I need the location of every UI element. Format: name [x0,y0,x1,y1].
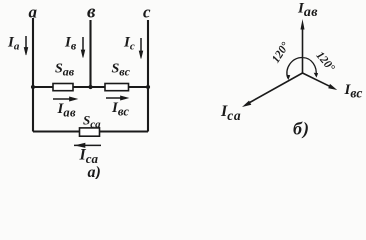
svg-text:a): a) [88,164,101,179]
svg-text:Saв: Saв [55,62,75,79]
svg-text:в: в [87,2,96,23]
svg-text:б): б) [293,119,310,140]
svg-text:Iвc: Iвc [344,82,363,101]
svg-text:c: c [143,3,151,22]
svg-text:Sвc: Sвc [112,62,131,79]
svg-text:a: a [29,3,38,22]
